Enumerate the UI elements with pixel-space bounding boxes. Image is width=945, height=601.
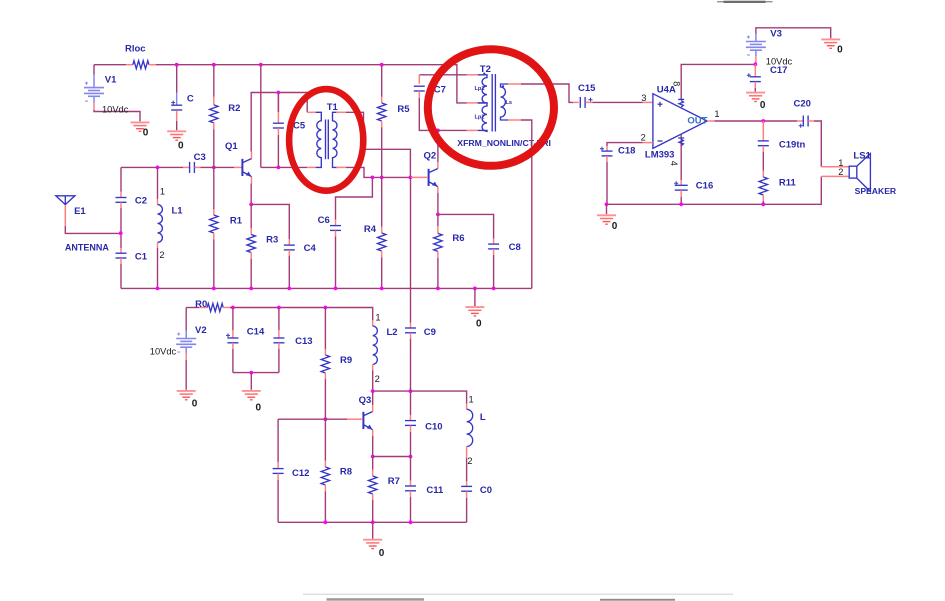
wire Q3 emitter down: [372, 436, 374, 457]
pin C16 bottom: [680, 190, 682, 197]
pin V2 bottom: [185, 353, 187, 360]
capacitor C18: [600, 147, 613, 156]
capacitor C1: [116, 253, 127, 258]
capacitor C: [171, 101, 182, 110]
svg-text:OUT: OUT: [687, 115, 707, 126]
pin C3 left: [183, 166, 189, 168]
wire L2 to row391: [372, 371, 374, 392]
svg-text:C: C: [187, 94, 194, 105]
capacitor C13: [273, 338, 284, 343]
wire antenna to tank: [65, 226, 120, 233]
op-amp plus input mark: [658, 102, 663, 107]
junction bus-C8: [492, 287, 496, 291]
junction R9-R8-Q3base: [324, 417, 328, 421]
wire C2 to antenna node: [120, 208, 122, 248]
wire R7 to bottom loop: [372, 500, 374, 522]
svg-text:0: 0: [379, 548, 385, 559]
wire bus down to T1 bottom row: [260, 65, 262, 168]
svg-text:ANTENNA: ANTENNA: [65, 243, 109, 253]
wire Q3 ground stem: [372, 522, 374, 539]
ground 0 below V1: [131, 122, 150, 131]
svg-text:C17: C17: [770, 65, 787, 76]
junction bus-gnd: [473, 287, 477, 291]
pin C9 bottom: [410, 333, 412, 339]
pin Q2 emitter: [437, 187, 439, 193]
resistor R3: [247, 235, 255, 253]
svg-text:Lp2: Lp2: [475, 115, 485, 121]
wire bus to R5: [381, 65, 383, 97]
ground 0 below C: [167, 131, 186, 140]
pin C17 bottom: [754, 82, 756, 88]
transformer T2 primary Lp2: [478, 103, 487, 131]
svg-text:R7: R7: [388, 476, 400, 487]
pin T2 Lp2 bottom: [467, 129, 478, 131]
wire C0 to bottom loop: [466, 498, 468, 522]
voltage source V1 battery: [84, 82, 104, 102]
wire L1 top: [157, 167, 159, 199]
resistor R8: [321, 467, 329, 485]
wire base row to R8: [324, 419, 326, 460]
wire emitter node to C8: [438, 214, 494, 238]
wire emitter node to R6: [437, 214, 439, 226]
phase dot T2 secondary: [502, 85, 504, 87]
svg-text:1: 1: [469, 395, 474, 405]
pin opamp out: [707, 120, 714, 122]
resistor R6: [434, 233, 442, 251]
pin Q1 emitter: [251, 177, 253, 184]
wire T1 right top to Q2 base route: [346, 112, 410, 177]
ground 0 below V2: [177, 391, 196, 400]
svg-text:T2: T2: [480, 64, 491, 75]
capacitor C4: [284, 245, 295, 250]
wire base row: [278, 418, 347, 420]
svg-text:3: 3: [641, 93, 646, 103]
svg-text:C18: C18: [618, 145, 635, 156]
wire C to ground: [176, 121, 178, 130]
pin Q1 base: [234, 166, 242, 168]
wire C7 top corner to Lp1: [419, 74, 467, 76]
svg-text:Q2: Q2: [424, 151, 437, 162]
wire C13 to loop: [278, 349, 280, 373]
svg-text:T1: T1: [327, 102, 339, 113]
svg-text:R3: R3: [266, 234, 278, 245]
svg-text:2: 2: [467, 456, 472, 466]
window artifact bottom dark segment left: [327, 598, 425, 601]
junction loop-R7-ground: [371, 520, 375, 524]
pin C15 right: [585, 101, 592, 103]
op-amp V- clamp mark: [678, 138, 684, 146]
pin R5 bottom: [381, 121, 383, 128]
wire bus to R2: [213, 65, 215, 97]
resistor Rloc: [133, 61, 149, 69]
junction Q2emitter-R6-C8: [436, 213, 440, 217]
svg-text:V3: V3: [770, 29, 782, 40]
capacitor C9: [405, 328, 416, 333]
wire Q3 collector up: [372, 391, 374, 405]
wire top supply bus: [94, 64, 126, 66]
svg-text:C8: C8: [509, 242, 521, 253]
pin T2 Lp center tap: [467, 102, 478, 104]
svg-text:0: 0: [476, 319, 482, 330]
pin opamp pin3: [643, 101, 653, 103]
wire bottom ground bus: [121, 287, 532, 289]
svg-text:L: L: [480, 412, 486, 423]
wire emitter node to C4 branch: [251, 204, 289, 239]
svg-text:0: 0: [192, 398, 198, 409]
capacitor C2: [116, 198, 127, 203]
wire V3 top to ground: [756, 28, 831, 39]
svg-text:1: 1: [714, 109, 719, 119]
capacitor C8: [488, 244, 499, 249]
junction rail-C14: [231, 306, 235, 310]
svg-text:C12: C12: [292, 468, 309, 479]
pin R8 top: [324, 461, 326, 468]
transformer T1 right winding: [333, 112, 338, 167]
svg-text:R4: R4: [364, 224, 377, 235]
wire C5 upper segment: [277, 93, 279, 113]
pin R6 top: [437, 226, 439, 233]
wire V- pin down: [680, 134, 682, 180]
junction rowB-C5: [277, 166, 281, 170]
svg-text:0: 0: [178, 141, 184, 152]
pin R2 bottom: [213, 123, 215, 130]
svg-text:L2: L2: [387, 327, 398, 338]
window artifact top gray bar: [717, 1, 773, 3]
wire row391 to C10: [410, 391, 412, 415]
voltage source V3 battery: [746, 36, 766, 56]
svg-text:C20: C20: [794, 99, 811, 110]
pin speaker 1: [821, 166, 849, 168]
wire V2 top corner: [186, 307, 199, 309]
resistor R9: [321, 355, 329, 373]
capacitor C0: [461, 486, 472, 491]
svg-text:0: 0: [256, 403, 262, 414]
pin R1 bottom: [213, 233, 215, 240]
pin C2 top: [120, 192, 122, 198]
svg-text:0: 0: [612, 221, 618, 232]
op-amp V+ clamp mark: [678, 99, 684, 107]
wire V+ pin up and over to V3: [681, 64, 755, 99]
inductor L2: [373, 326, 378, 365]
capacitor C11: [405, 486, 416, 491]
wire C17 to ground: [754, 88, 756, 92]
wire C1 to bottom bus: [120, 264, 122, 288]
wire V3 to junction: [755, 62, 757, 64]
wire rail ground stem: [606, 204, 608, 214]
pin opamp pin2: [643, 142, 653, 144]
antenna E1 symbol: [56, 196, 75, 205]
pin L pin2: [466, 447, 468, 459]
svg-text:C16: C16: [696, 181, 713, 192]
ground 0 below C14 loop: [242, 391, 261, 400]
transformer T2 primary Lp1: [478, 75, 487, 103]
svg-text:C4: C4: [304, 243, 317, 254]
ground 0 right of V3: [821, 39, 840, 48]
junction OUT-C19: [761, 119, 765, 123]
wire R9 to base row: [324, 379, 326, 419]
resistor R7: [369, 476, 377, 494]
pin Q2 collector: [437, 162, 439, 169]
wire C12 top: [277, 419, 279, 462]
pin C8 bottom: [493, 249, 495, 255]
pin Rloc right: [149, 64, 156, 66]
pin C17 top: [754, 64, 756, 76]
red annotation ellipse around T1: [289, 89, 363, 191]
wire pin2 to C18: [607, 143, 643, 147]
capacitor C15: [580, 97, 592, 108]
pin R2 top: [213, 97, 215, 105]
wire Ls bottom down to bottom bus: [521, 120, 532, 288]
junction rail-C13: [277, 306, 281, 310]
svg-text:C2: C2: [135, 195, 147, 206]
window artifact bottom dark segment right: [600, 599, 675, 601]
voltage source V2 battery: [176, 333, 196, 353]
junction bus-R3: [249, 287, 253, 291]
wire Q1 emitter down: [250, 184, 252, 205]
svg-text:R5: R5: [397, 104, 410, 115]
pin R0 right: [223, 307, 230, 309]
pin C14 top: [232, 330, 234, 338]
svg-text:Rloc: Rloc: [125, 44, 146, 55]
svg-text:R2: R2: [228, 103, 240, 114]
capacitor C7: [414, 86, 425, 91]
svg-text:C11: C11: [426, 485, 444, 496]
svg-text:C19tn: C19tn: [779, 140, 806, 151]
capacitor C14: [226, 333, 238, 342]
svg-text:C10: C10: [425, 421, 442, 432]
pin Ls bottom out: [508, 119, 521, 121]
pin C19 top: [762, 121, 764, 141]
wire V2 top vertical: [185, 308, 187, 331]
svg-text:0: 0: [143, 127, 149, 138]
wire loop ground stem: [250, 373, 252, 390]
pin R6 bottom: [437, 251, 439, 258]
capacitor C5: [273, 123, 284, 128]
svg-text:4: 4: [669, 161, 679, 166]
pin T1 right bottom: [336, 166, 346, 168]
wire R8 to bottom loop: [324, 492, 326, 523]
battery V1 top lead blue: [93, 75, 95, 88]
pin R5 top: [381, 97, 383, 104]
red annotation ellipse around T2: [428, 49, 554, 166]
pin L2 pin1: [372, 320, 374, 326]
svg-text:C0: C0: [480, 485, 492, 496]
wire row177 to R4: [381, 177, 383, 226]
wire C14-C13 bottom loop: [233, 372, 279, 374]
wire C4 to bottom bus: [288, 256, 290, 288]
pin C13 top: [278, 330, 280, 338]
svg-text:LM393: LM393: [645, 150, 675, 161]
pin C6 bottom: [335, 231, 337, 237]
resistor R0: [207, 304, 223, 312]
pin C19 bottom: [762, 146, 764, 152]
wire row391: [373, 391, 467, 404]
pin C10 top: [410, 415, 412, 421]
wire C7 bottom to Lp2 bottom: [419, 98, 438, 130]
pin R3 top: [250, 228, 252, 235]
svg-text:10Vdc: 10Vdc: [150, 347, 177, 357]
svg-text:L1: L1: [172, 205, 184, 216]
wire C15 to pin3: [593, 101, 643, 103]
wire L1 to bottom bus: [157, 248, 159, 288]
svg-text:LS1: LS1: [853, 150, 871, 161]
resistor R4: [378, 233, 386, 251]
capacitor C10: [405, 421, 416, 426]
svg-text:2: 2: [375, 374, 380, 384]
pin L pin1: [466, 404, 468, 409]
svg-text:2: 2: [159, 250, 164, 260]
pin L1 pin2: [157, 242, 159, 248]
pin C1 top: [120, 248, 122, 253]
svg-text:C6: C6: [318, 215, 330, 226]
svg-text:C15: C15: [578, 83, 596, 94]
ground 0 below C17: [746, 93, 765, 102]
pin C12 top: [277, 462, 279, 469]
svg-text:Q3: Q3: [359, 395, 372, 406]
svg-text:R9: R9: [340, 355, 352, 366]
pin antenna: [64, 205, 66, 226]
wire C18 to rail: [606, 162, 608, 204]
pin C18 bottom: [606, 156, 608, 162]
wire C6 drop: [336, 177, 373, 219]
pin C12 bottom: [277, 474, 279, 481]
pin C5 top: [277, 93, 279, 124]
junction rail-R9: [324, 306, 328, 310]
junction Q3emitter-R7: [371, 455, 375, 459]
pin Q3 collector: [372, 405, 374, 412]
wire emitter node to R3: [250, 204, 252, 228]
pin speaker 2: [821, 175, 849, 177]
wire C16 to rail: [680, 197, 682, 204]
resistor R1: [210, 215, 218, 233]
svg-text:10Vdc: 10Vdc: [102, 105, 129, 115]
junction bus-C6: [334, 287, 338, 291]
wire T1 right bottom to row 177: [346, 167, 410, 177]
capacitor C16: [674, 181, 688, 190]
pin C15 left: [573, 101, 579, 103]
capacitor C3: [190, 162, 195, 173]
junction V3-C17-Vplus: [753, 63, 757, 67]
wire OUT to C20: [715, 120, 798, 122]
wire bus to capacitor C: [176, 65, 178, 93]
wire C13 top: [278, 308, 280, 331]
pin C0 bottom: [466, 491, 468, 498]
pin C4 bottom: [288, 250, 290, 256]
capacitor C19: [758, 141, 769, 146]
wire V1 minus to ground: [94, 110, 140, 121]
pin R11 top: [762, 171, 764, 178]
pin C7 top: [418, 75, 420, 84]
pin T1 right top: [336, 111, 346, 113]
junction bus-R2: [212, 63, 216, 67]
op-amp U4A triangle: [653, 94, 707, 149]
pin V1 bottom: [93, 103, 95, 110]
wire R3 to bottom bus: [250, 259, 252, 288]
svg-text:1: 1: [375, 312, 380, 322]
svg-text:C14: C14: [247, 326, 265, 337]
svg-text:V1: V1: [105, 75, 117, 86]
pin R0 left: [199, 307, 207, 309]
pin T2 Lp1 top: [467, 74, 478, 76]
junction bus-R4: [380, 287, 384, 291]
transformer T2 secondary Ls: [501, 84, 509, 120]
wire C19 to R11: [762, 152, 764, 171]
wire emitter to R7: [372, 457, 374, 470]
pin Rloc left: [126, 64, 133, 66]
wire Lp2 bottom continues: [438, 129, 467, 131]
pin Q3 emitter: [372, 430, 374, 436]
battery V2 bottom lead blue: [185, 348, 187, 354]
wire C6 to bottom bus: [335, 237, 337, 289]
svg-text:E1: E1: [74, 206, 86, 217]
pin C bottom: [176, 110, 178, 121]
capacitor C17: [747, 73, 761, 81]
svg-text:Q1: Q1: [225, 141, 238, 152]
junction bus-C4: [287, 287, 291, 291]
pin Q3 base: [347, 418, 363, 420]
pin R9 bottom: [324, 373, 326, 379]
battery V1 bottom lead blue: [93, 97, 95, 104]
wire bottom loop: [278, 521, 467, 523]
wire C14 top: [232, 308, 234, 331]
wire row A C3 to Q1 base: [201, 166, 235, 168]
wire V2 to ground: [185, 360, 187, 390]
pin V3 bottom: [755, 56, 757, 62]
junction Lp2-Q2 collector: [436, 129, 440, 133]
svg-text:R6: R6: [452, 233, 464, 244]
wire R1 to bottom bus: [213, 240, 215, 289]
junction rail-R11: [761, 202, 765, 206]
pin R11 bottom: [762, 195, 764, 201]
inductor L1: [158, 205, 163, 243]
junction bus-R5: [380, 63, 384, 67]
pin T1 left top: [307, 111, 316, 113]
pin C1 bottom: [120, 258, 122, 264]
svg-text:R1: R1: [230, 216, 243, 227]
resistor R11: [759, 177, 767, 195]
pin C0 top: [466, 481, 468, 486]
capacitor C12: [273, 469, 284, 474]
pin C20 left: [797, 120, 803, 122]
wire C9 vertical from Q2 base node: [410, 177, 412, 322]
wire row A left: [121, 166, 183, 168]
pin C11 top: [410, 481, 412, 487]
inductor L: [467, 409, 473, 446]
junction loop-ground: [249, 371, 253, 375]
transformer T2 core: [492, 74, 495, 132]
pin C20 right: [808, 120, 814, 122]
svg-text:R11: R11: [779, 178, 797, 189]
transistor Q3: [363, 412, 372, 430]
wire R6 to bottom bus: [437, 258, 439, 288]
capacitor C6: [330, 226, 341, 231]
svg-text:V2: V2: [195, 325, 207, 336]
svg-text:C9: C9: [424, 327, 436, 338]
wire rail to R9: [324, 308, 326, 350]
wire R11 to rail: [762, 201, 764, 204]
pin C3 right: [195, 166, 201, 168]
pin R4 bottom: [381, 251, 383, 258]
capacitor C top lead blue: [176, 93, 178, 105]
wire Q2 emitter down: [437, 193, 439, 214]
ground 0 on bottom bus: [465, 307, 484, 316]
junction row177-R5R4: [380, 176, 384, 180]
junction row177-C6: [371, 176, 375, 180]
pin L1 pin1: [157, 199, 159, 205]
junction row391-C9-C10: [409, 389, 413, 393]
wire base node to R1: [213, 167, 215, 209]
svg-text:R8: R8: [340, 467, 352, 478]
